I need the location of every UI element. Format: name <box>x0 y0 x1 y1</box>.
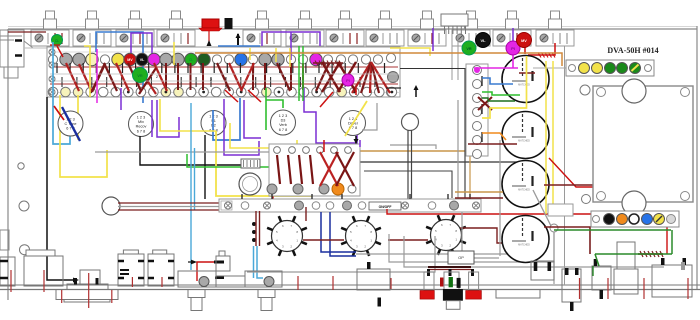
wire yellow V5 diag <box>345 101 367 136</box>
wire blue heater <box>482 78 513 84</box>
chassis right edge <box>696 26 698 290</box>
jack box A <box>118 254 144 286</box>
chassis hole right2 <box>582 195 591 204</box>
wire red V1 diag <box>54 106 64 120</box>
svg-text:OP: OP <box>458 255 464 260</box>
wire red V5 top <box>355 88 357 95</box>
pot P8 body <box>366 30 404 46</box>
svg-text:DVA-50H #014: DVA-50H #014 <box>607 46 658 55</box>
wire yellow pair right <box>545 61 547 214</box>
wire purple V2 <box>151 100 153 137</box>
power tube V6 <box>502 56 549 103</box>
svg-text:1 2 3: 1 2 3 <box>279 114 287 118</box>
svg-text:Verb: Verb <box>279 123 287 127</box>
wire blue mid top <box>218 45 260 47</box>
wire red driver drop <box>272 150 274 199</box>
wire red below board b <box>248 90 261 102</box>
pot P1 body <box>31 30 69 46</box>
pot P11 body <box>493 30 531 46</box>
wire gray long mid <box>95 151 330 153</box>
wire green long mid <box>187 154 269 167</box>
input jack 1 <box>178 271 216 287</box>
right board leads <box>481 76 483 86</box>
knob dot VL right <box>476 33 491 48</box>
rail lead ticks <box>241 194 243 199</box>
svg-text:6 7 8: 6 7 8 <box>279 128 287 132</box>
driver board resistors <box>277 155 280 184</box>
wire red CL <box>50 44 60 46</box>
pot P4 body <box>157 30 195 46</box>
wire blue pair sockets <box>321 212 356 252</box>
wire maroon bundle lower <box>118 209 222 211</box>
svg-text:VR: VR <box>137 74 143 78</box>
pot P9 body <box>408 30 446 46</box>
wire purple loop top <box>131 33 152 57</box>
resistor X VL <box>139 68 156 94</box>
board top eyelet row <box>48 55 57 64</box>
jack1 component bars <box>214 261 224 264</box>
right board resistor X <box>478 97 492 110</box>
wire black left long <box>47 97 76 280</box>
power tube V8 <box>502 161 549 208</box>
fuse holder box <box>24 256 63 286</box>
svg-text:PI: PI <box>511 47 515 51</box>
wire blue pair to jack2 <box>253 246 255 278</box>
wire black V2 down <box>140 136 241 165</box>
right board magenta eyelet <box>474 67 480 73</box>
wire yellow V4 down <box>296 140 298 165</box>
wire yellow V1 right <box>77 95 79 140</box>
wire black board to right board <box>400 68 487 70</box>
resistor V pair <box>79 64 92 92</box>
power tube V9 <box>502 216 549 263</box>
wire black long mid <box>360 161 520 163</box>
bracket box right <box>548 204 573 216</box>
wire red MV right <box>524 46 526 54</box>
board bus wire upper <box>50 66 398 68</box>
right driver board <box>466 64 488 156</box>
power inlet connector <box>441 14 468 26</box>
jack box C <box>357 269 390 290</box>
pot P10 shaft <box>467 11 476 19</box>
board component leads <box>56 63 58 73</box>
pot P12 body <box>536 30 574 46</box>
wire blue V3 <box>213 98 240 140</box>
transformer grommet top <box>622 79 646 103</box>
terminal box OP <box>448 251 474 264</box>
transformer grommet bottom <box>622 191 646 215</box>
pot P11 shaft <box>508 11 517 19</box>
octal socket X2 <box>346 221 377 252</box>
wire purple V3 <box>224 99 259 155</box>
driver board bottom eyelets <box>267 184 277 194</box>
wire gray V2 drop pair <box>190 103 192 270</box>
wire yellow V1 left <box>60 95 107 177</box>
wire purple PI top <box>512 28 514 48</box>
pot P3 shaft <box>131 11 140 19</box>
wire maroon top left <box>8 31 46 33</box>
pot P1 shaft <box>46 11 55 19</box>
left lower bracket <box>0 230 9 250</box>
wire maroon bundle upper <box>118 202 222 204</box>
svg-text:ON/OFF: ON/OFF <box>379 205 392 209</box>
wire purple board right <box>432 28 434 51</box>
wire purple mid top <box>262 32 320 46</box>
board gray bus lines <box>50 73 398 75</box>
wire yellow V3 right <box>230 123 269 148</box>
svg-text:Mix: Mix <box>138 120 144 124</box>
board bus wire lower <box>50 83 398 85</box>
speaker jack 1 <box>531 261 554 280</box>
wire green pair top <box>298 46 300 101</box>
wire orange long <box>195 53 562 66</box>
chassis bottom rail <box>0 284 700 286</box>
wire tan long mid <box>352 150 470 152</box>
impedance box <box>592 266 611 290</box>
resistor fan right section <box>352 62 371 93</box>
wire magenta PI to tubes <box>512 54 514 68</box>
wire red twisted top right <box>528 43 555 55</box>
pot P12 shaft <box>551 11 560 19</box>
board bottom eyelet row <box>48 87 58 97</box>
knob dot CL top-left <box>52 35 63 46</box>
node PI dot <box>342 74 354 86</box>
wire yellow pot2 drop <box>84 46 90 97</box>
pot P10 body <box>452 30 490 46</box>
pot P5 body <box>243 30 281 46</box>
wire tan rail to tubes <box>455 191 503 193</box>
tube socket V4 D3-Verb <box>271 110 296 135</box>
svg-text:VL: VL <box>480 38 486 43</box>
wire darkblue V1 diag <box>62 107 80 141</box>
svg-text:Recov: Recov <box>136 125 147 129</box>
wire red below board a <box>225 90 238 102</box>
tube socket V1 C-Tone <box>58 111 83 136</box>
filter cap can C2 <box>402 114 419 131</box>
chassis hole right1 <box>580 85 590 95</box>
corner bracket top left <box>0 35 22 37</box>
wire maroon OT primary 1 <box>544 184 593 186</box>
RCA jack block <box>428 266 471 268</box>
pot P6 shaft <box>301 11 310 19</box>
wire maroon socket feeds <box>305 207 307 221</box>
wire yellow top mid <box>390 48 430 56</box>
svg-text:MATCHED: MATCHED <box>518 140 530 143</box>
chassis hole a <box>18 163 24 169</box>
board left edge eyelets <box>49 49 55 55</box>
wire maroon twisted section <box>638 253 663 255</box>
node VR dot <box>133 68 148 83</box>
reverb driver board <box>269 144 360 196</box>
pot P8 shaft <box>381 11 390 19</box>
svg-text:1 2 3: 1 2 3 <box>137 116 145 120</box>
pot P2 shaft <box>88 11 97 19</box>
wire green OT loop <box>554 229 671 231</box>
pot P9 shaft <box>423 11 432 19</box>
svg-text:MATCHED: MATCHED <box>518 84 530 87</box>
chassis hole b <box>19 201 29 211</box>
board corner eyelets right <box>386 53 395 62</box>
wire yellow U below V3 <box>216 131 311 196</box>
wire purple driver board <box>359 140 361 147</box>
driver board X resistors <box>320 152 338 186</box>
wire gray tube drop <box>499 140 501 256</box>
wire black L mid <box>364 171 452 198</box>
wire maroon tube2 <box>468 143 517 145</box>
pot P4 shaft <box>172 11 181 19</box>
jack middle box <box>216 276 245 287</box>
black arrow board right <box>415 88 417 97</box>
wire black V3 down <box>204 135 206 199</box>
pot P2 body <box>73 30 111 46</box>
wire yellow heater <box>482 56 527 118</box>
main eyelet board <box>47 47 400 97</box>
pot P7 body <box>326 30 364 46</box>
resistors diagonal A <box>66 63 79 91</box>
wire gray heater runs <box>389 228 554 262</box>
tube socket V5 Driver <box>341 111 366 136</box>
terminal dots column <box>252 222 256 226</box>
wire purple v291 <box>290 32 292 60</box>
wire purple V3 right <box>244 100 261 138</box>
octal socket X3 <box>431 220 462 251</box>
knob dot VR right <box>462 41 476 55</box>
input jack 2 <box>245 271 282 287</box>
plate mid right <box>496 290 540 299</box>
power tube V7 <box>502 112 549 159</box>
wire maroon rail to tubes <box>455 197 503 199</box>
wire gray drops board right <box>457 100 459 199</box>
chassis divider right <box>564 46 566 285</box>
wire magenta left <box>96 49 98 103</box>
wire gray V5 right <box>362 103 377 130</box>
cap black <box>225 18 233 29</box>
pot P6 body <box>286 30 324 46</box>
wire orange heater <box>482 133 506 140</box>
wire yellow V2 right <box>160 99 216 131</box>
tube socket V2 Mix-Recov <box>129 112 154 137</box>
pot P7 shaft <box>341 11 350 19</box>
rail holes <box>225 202 232 209</box>
wire red driver board <box>323 140 325 152</box>
tube socket V3 S1-D2 <box>201 111 226 136</box>
svg-text:D3: D3 <box>281 119 286 123</box>
pot P5 shaft <box>258 11 267 19</box>
chassis hole c <box>20 245 30 255</box>
wire purple V4 to V5 <box>304 88 357 143</box>
left bracket plate <box>0 30 24 67</box>
wire red jack1 feed <box>197 262 215 281</box>
resistors diagonal B <box>92 63 105 91</box>
wire green heater <box>482 92 520 95</box>
wire yellow pots mid <box>249 48 251 60</box>
wire green top vertical <box>592 266 594 276</box>
octal socket X1 <box>272 221 303 252</box>
chassis top rail <box>8 28 697 30</box>
bottom screws red <box>579 278 581 299</box>
svg-text:MATCHED: MATCHED <box>518 189 530 192</box>
wire maroon tube1 tick <box>519 72 535 74</box>
svg-text:VL: VL <box>140 58 145 62</box>
pot P3 body <box>116 30 154 46</box>
wire gray mid short <box>390 145 436 149</box>
black tick right section <box>386 87 401 89</box>
knob dot MV right <box>517 33 532 48</box>
lower mounting rail <box>219 199 481 212</box>
bias box tall <box>617 242 635 269</box>
switch label ON/OFF <box>369 202 401 210</box>
line out box <box>652 265 692 297</box>
wire red pair bottom left <box>255 211 257 246</box>
svg-text:6 7 8: 6 7 8 <box>137 129 145 133</box>
wire blue loop top <box>96 32 143 103</box>
knob dot PI right <box>506 41 520 55</box>
wire green V4 <box>265 88 267 130</box>
wire red tube3 feed <box>549 158 600 187</box>
svg-text:CL: CL <box>55 39 59 43</box>
wire red below board c <box>320 92 333 107</box>
bias dot hatched <box>630 63 641 74</box>
svg-text:MV: MV <box>127 58 133 62</box>
eyelet gray right section <box>388 72 399 83</box>
wire black V5 down <box>355 136 357 144</box>
jack box B <box>148 254 174 286</box>
wire cyan input <box>53 42 70 144</box>
chassis left edge <box>7 29 9 300</box>
wire red rail to B+ <box>387 209 667 254</box>
wire gray bundle <box>118 206 222 208</box>
IEC jack assembly <box>80 270 100 284</box>
wire maroon twisted on board <box>313 62 343 64</box>
svg-text:PI: PI <box>346 79 349 83</box>
speaker jack 2 <box>562 269 581 302</box>
resistors on board vertical <box>165 63 167 90</box>
bottom ticks left <box>120 269 129 271</box>
power switch box <box>0 257 15 286</box>
wire gray diag right <box>533 190 551 226</box>
filter cap can C1 <box>241 159 260 168</box>
driver board orange eyelet <box>332 183 344 195</box>
grommet hole <box>102 197 120 215</box>
wire purple V2 left <box>120 88 122 110</box>
svg-text:MV: MV <box>521 39 527 43</box>
wire yellow pot3 <box>173 42 175 65</box>
svg-text:MATCHED: MATCHED <box>518 244 530 247</box>
bias LED board top <box>566 60 654 76</box>
terminal dot board bottom <box>591 211 679 227</box>
driver board top eyelets <box>274 147 281 154</box>
bottom screws red left <box>297 276 299 290</box>
wire maroon OT primary 2 <box>544 227 590 254</box>
wire gray tube1 to board <box>533 67 566 69</box>
jack stack box <box>216 256 230 271</box>
svg-text:VR: VR <box>466 47 472 51</box>
fuse cap red <box>202 19 219 28</box>
resistor cluster dark X <box>322 62 340 92</box>
svg-text:CL: CL <box>189 58 193 62</box>
power transformer <box>593 86 693 202</box>
